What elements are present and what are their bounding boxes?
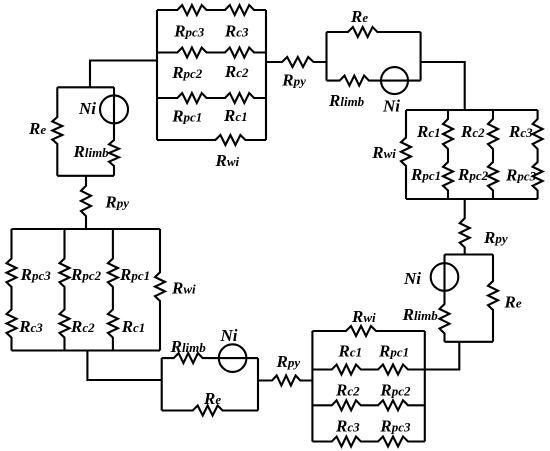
svg-text:Rpc1: Rpc1 [410, 165, 441, 184]
resistor Rpc1 and resistor Rc1 (top-middle branch 3) [157, 93, 266, 103]
resistor Re (top-right top branch) [327, 27, 421, 37]
wire: top-middle box left edge [156, 10, 158, 140]
wire: top-right box right edge [420, 32, 422, 81]
svg-text:Ni: Ni [382, 97, 400, 116]
svg-text:Ni: Ni [403, 269, 421, 288]
svg-text:Rpc1: Rpc1 [378, 342, 409, 361]
svg-text:Re: Re [203, 389, 221, 408]
svg-text:Rpy: Rpy [483, 228, 508, 247]
wire: bottom-center box right edge [257, 358, 259, 410]
wire: top-right box left edge [325, 32, 327, 81]
svg-text:Rpc1: Rpc1 [171, 106, 202, 125]
svg-text:Rc1: Rc1 [223, 106, 248, 125]
resistor Rpc1 and resistor Rc1 (lower-left branch 3) [108, 229, 118, 351]
wire: bottom parallel box left edge [311, 331, 313, 442]
resistor Rwi (right box branch 1) [401, 110, 411, 199]
resistor Rlimb (lower-right block left branch) [440, 255, 450, 342]
wire: bottom parallel box right edge [424, 331, 426, 442]
mmf source Ni (lower-right block) [431, 263, 459, 291]
resistor Rpc2 and resistor Rc2 (lower-left branch 2) [60, 229, 70, 351]
resistor Rwi (lower-left branch 4) [155, 229, 165, 351]
svg-text:Rc2: Rc2 [335, 381, 360, 400]
svg-text:Rpc3: Rpc3 [379, 416, 411, 435]
svg-text:Rc3: Rc3 [508, 122, 533, 141]
resistor Rc2 and resistor Rpc2 (bottom box branch 3) [312, 400, 424, 410]
svg-text:Rpy: Rpy [281, 71, 306, 90]
svg-text:Rpc2: Rpc2 [70, 265, 102, 284]
wire: lower-left box top edge [12, 228, 161, 230]
resistor Re (lower-right block right branch) [488, 255, 498, 342]
svg-text:Rpc2: Rpc2 [457, 165, 489, 184]
resistor Rpy (left vertical) [81, 176, 91, 229]
svg-text:Rlimb: Rlimb [402, 305, 439, 324]
resistor Rpc3 and resistor Rc3 (lower-left branch 1) [7, 229, 17, 351]
svg-text:Rc2: Rc2 [224, 62, 249, 81]
wire: upper-left box top edge [57, 86, 114, 88]
mmf source Ni (top-right block) [381, 67, 408, 94]
svg-text:Rc1: Rc1 [121, 317, 146, 336]
svg-text:Ni: Ni [220, 326, 238, 345]
svg-text:Rwi: Rwi [171, 279, 196, 298]
svg-text:Rlimb: Rlimb [170, 337, 207, 356]
resistor Rpy (bottom horizontal) [258, 376, 312, 386]
svg-text:Rc2: Rc2 [70, 317, 95, 336]
wire: lower-right box top edge [445, 253, 494, 255]
wire: lower-right box bottom edge [445, 341, 494, 343]
mmf source Ni (bottom-center block) [219, 344, 247, 372]
wire: top-middle box right edge [265, 10, 267, 140]
svg-text:Rlimb: Rlimb [73, 142, 110, 161]
svg-text:Re: Re [504, 293, 522, 312]
svg-text:Rwi: Rwi [371, 143, 396, 162]
mmf source Ni (upper-left block) [100, 95, 128, 123]
resistor Rpy (right vertical) [460, 199, 470, 255]
svg-text:Ni: Ni [78, 99, 96, 118]
resistor Rlimb (top-right bottom branch) [327, 76, 421, 86]
svg-text:Rpc3: Rpc3 [20, 265, 52, 284]
svg-text:Rc3: Rc3 [335, 416, 360, 435]
svg-text:Rpc3: Rpc3 [505, 166, 537, 185]
svg-text:Rc2: Rc2 [460, 122, 485, 141]
resistor Rlimb (upper-left block right branch) [109, 87, 119, 176]
wire: top-right block right stub down to right parallel box [421, 62, 465, 110]
svg-text:Rwi: Rwi [351, 307, 376, 326]
wire: bottom box right stub up to lower-right source block [425, 342, 460, 370]
wire: upper-left block top feed to top-middle box [90, 61, 157, 88]
svg-text:Re: Re [350, 7, 368, 26]
resistor Rc3 and resistor Rpc3 (right box branch 4) [533, 110, 543, 199]
resistor Rc1 and resistor Rpc1 (right box branch 2) [443, 110, 453, 199]
resistor Rpc3 and resistor Rc3 (top-middle branch 1) [157, 5, 266, 15]
svg-text:Rpc2: Rpc2 [379, 381, 411, 400]
wire: lower-left box bottom edge [12, 349, 161, 351]
svg-text:Rc1: Rc1 [416, 122, 441, 141]
resistor Rc1 and resistor Rpc1 (bottom box branch 2) [312, 365, 424, 375]
resistor Rpy (top horizontal) [266, 57, 327, 67]
svg-text:Rlimb: Rlimb [328, 91, 365, 110]
resistor Rc2 and resistor Rpc2 (right box branch 3) [488, 110, 498, 199]
resistor Rpc2 and resistor Rc2 (top-middle branch 2) [157, 48, 266, 58]
svg-text:Rpc2: Rpc2 [171, 63, 203, 82]
svg-text:Rc3: Rc3 [18, 317, 43, 336]
resistor Re (upper-left block left branch) [52, 87, 62, 176]
resistor Rwi (top-middle branch 4) [157, 135, 266, 145]
svg-text:Rwi: Rwi [215, 151, 240, 170]
svg-text:Rc3: Rc3 [224, 22, 249, 41]
wire: lower-left box bottom feed to bottom-center block [87, 351, 161, 381]
svg-text:Rpc1: Rpc1 [119, 265, 150, 284]
svg-text:Re: Re [28, 119, 46, 138]
resistor Rwi (bottom box branch 1) [312, 326, 424, 336]
resistor Rc3 and resistor Rpc3 (bottom box branch 4) [312, 437, 424, 447]
wire: right parallel box top edge [406, 109, 538, 111]
resistor Rlimb (bottom-center top branch) [162, 353, 258, 363]
resistor Re (bottom-center bottom branch) [162, 406, 258, 416]
wire: right parallel box bottom edge [406, 198, 538, 200]
svg-text:Rpy: Rpy [276, 352, 301, 371]
svg-text:Rpy: Rpy [104, 192, 129, 211]
wire: upper-left box bottom edge [57, 175, 114, 177]
svg-text:Rpc3: Rpc3 [173, 22, 205, 41]
wire: bottom-center box left edge [161, 358, 163, 410]
svg-text:Rc1: Rc1 [338, 342, 363, 361]
